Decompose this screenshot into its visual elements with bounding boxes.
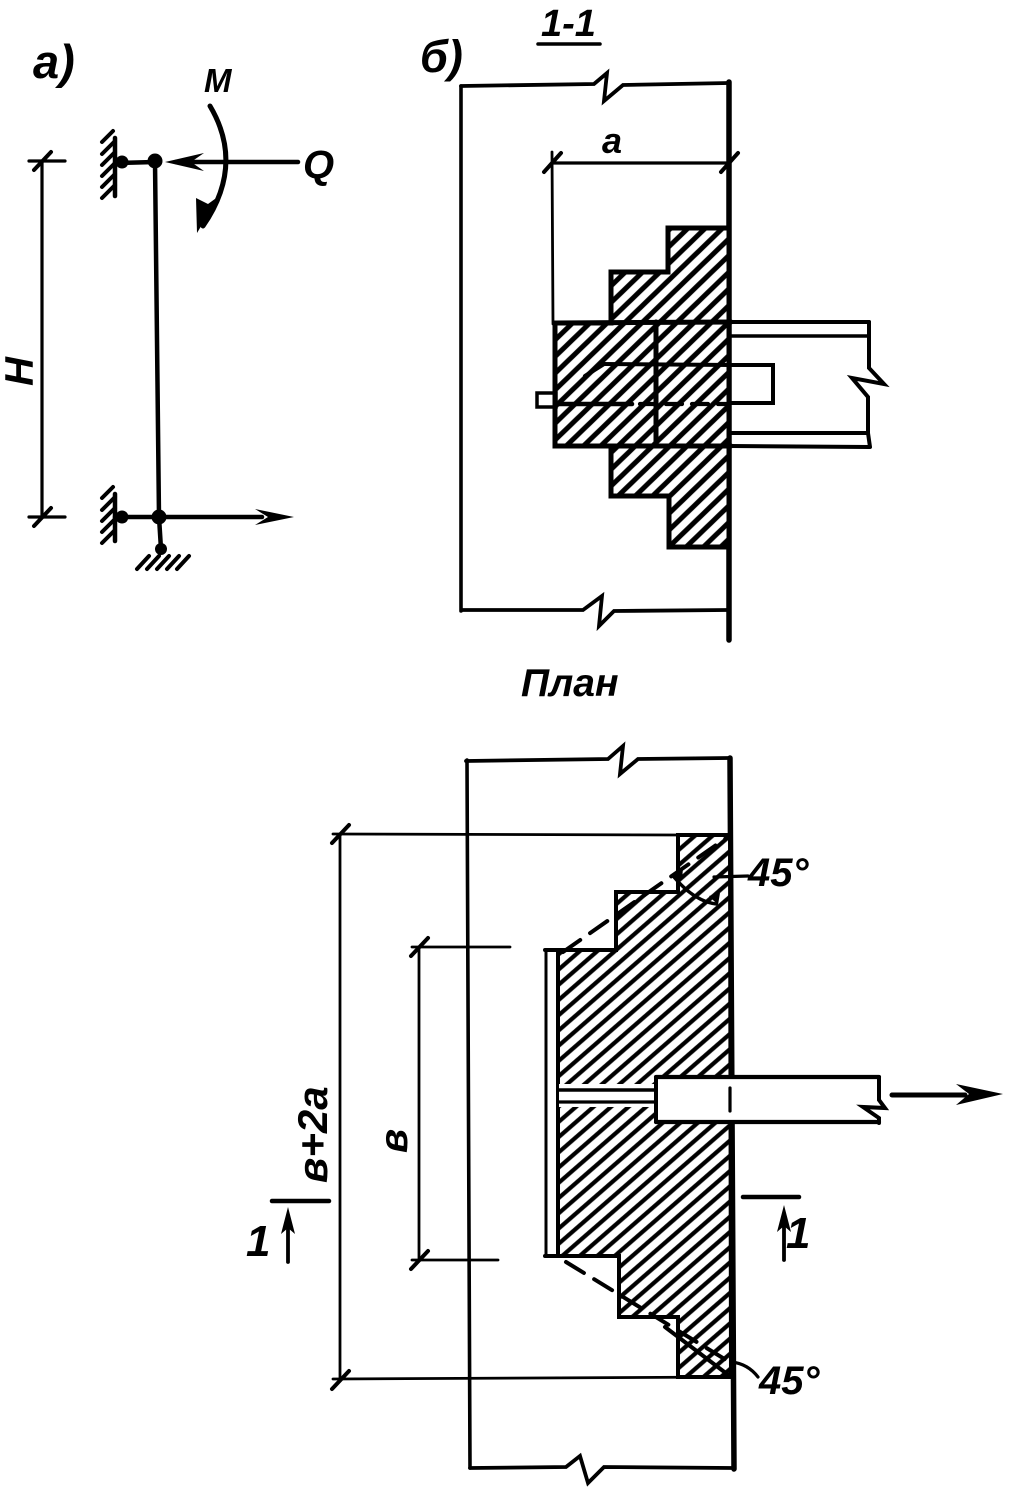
bottom reaction arrow [166, 515, 262, 520]
bolt shaft [556, 402, 632, 407]
dim b+2a line [339, 834, 342, 1380]
top support wall [113, 138, 118, 196]
moment arc M [203, 106, 226, 226]
dimension H top tick [34, 152, 51, 170]
svg-text:Н: Н [0, 356, 42, 386]
top support link [115, 162, 155, 163]
dimension H top stub [29, 159, 65, 162]
dim b+2a top extension [333, 834, 679, 835]
bolt shaft bottom line [558, 1100, 658, 1103]
wall face (right edge) [726, 82, 732, 640]
dimension H line [40, 161, 43, 517]
bolt shaft top line [558, 1088, 658, 1092]
wall face trace through beam [728, 1088, 731, 1111]
wall top edge with break [461, 73, 729, 101]
svg-text:1: 1 [786, 1209, 810, 1258]
dim b+2a bottom tick [332, 1371, 349, 1389]
dimension a extension line [552, 152, 553, 324]
block bottom line through [555, 444, 731, 449]
svg-text:План: План [521, 662, 619, 705]
45 deg leader top [714, 876, 748, 877]
svg-text:в+2а: в+2а [289, 1086, 336, 1183]
svg-text:М: М [204, 62, 233, 99]
dashed 45 line top [563, 836, 729, 952]
plate inner edge [556, 950, 560, 1256]
svg-text:а): а) [33, 35, 75, 88]
dimension H bottom stub [29, 515, 65, 518]
bolt head [537, 393, 556, 407]
plan wall top edge with break [466, 746, 729, 774]
beam break line [852, 322, 884, 447]
tab line chamfer [585, 364, 604, 376]
block top line through [555, 322, 731, 323]
bottom node dot [152, 510, 167, 525]
dim b top tick [411, 938, 428, 956]
section mark 1 right arrow [782, 1222, 786, 1260]
angle arc top [674, 877, 716, 904]
plate top step edge [545, 948, 616, 952]
dim b line [418, 947, 421, 1260]
section mark 1 right bar [743, 1195, 799, 1200]
dim b bottom tick [411, 1251, 428, 1269]
ground hatching [137, 556, 189, 569]
dim b+2a top tick [332, 825, 349, 843]
force Q arrow [176, 160, 298, 165]
tab top line into block [603, 364, 731, 365]
beam break line [863, 1077, 885, 1123]
svg-text:Q: Q [303, 143, 334, 187]
beam bottom flange line 2 [731, 446, 869, 447]
plan wall face (right edge) [730, 758, 734, 1469]
section mark 1 left arrow [286, 1224, 290, 1262]
svg-text:в: в [372, 1129, 416, 1153]
bolt axis dashed [640, 402, 727, 406]
plan wall bottom edge with break [470, 1456, 733, 1483]
title underline [538, 42, 600, 46]
svg-text:а: а [602, 120, 622, 161]
dashed 45 line bottom [566, 1262, 731, 1363]
anchor tab on face [731, 365, 773, 403]
top node dot [148, 154, 163, 169]
dim b+2a bottom extension [333, 1377, 731, 1379]
45 deg leader bottom [732, 1362, 758, 1377]
beam white fill [656, 1077, 879, 1122]
section mark 1 left bar [272, 1199, 329, 1204]
top support pin dot [116, 156, 129, 169]
moment arrowhead [196, 196, 219, 233]
arc arrowhead 2 [709, 893, 720, 905]
dimension a right tick [721, 153, 738, 172]
svg-text:б): б) [420, 31, 463, 82]
svg-text:1: 1 [246, 1217, 270, 1266]
bottom support wall [113, 494, 118, 541]
bottom support pin dot [116, 511, 129, 524]
embedded plate edge [654, 322, 659, 446]
svg-text:45°: 45° [758, 1359, 820, 1403]
pull arrow [892, 1093, 965, 1098]
svg-text:45°: 45° [747, 851, 809, 895]
plan stepped block (hatched) [558, 835, 731, 1377]
beam top flange line 2 [731, 334, 869, 338]
plate bottom step edge [545, 1254, 619, 1258]
column [155, 162, 161, 549]
beam bottom edge [656, 1120, 879, 1124]
dimension a line [552, 161, 729, 164]
plate outer edge [545, 950, 548, 1256]
dim b bottom extension [412, 1259, 498, 1262]
plan wall left edge [467, 760, 470, 1468]
svg-text:1-1: 1-1 [541, 3, 596, 45]
beam left end [654, 1077, 658, 1122]
bolt shaft white fill [559, 1084, 656, 1107]
arc arrowhead 1 [672, 868, 683, 880]
bottom support wall hatching [102, 487, 115, 543]
wall left edge [459, 86, 463, 611]
dimension H bottom tick [34, 508, 51, 526]
solid 45 line bottom [665, 1327, 731, 1377]
beam top edge [656, 1075, 879, 1079]
bottom support link [115, 515, 159, 520]
base pin dot [155, 543, 167, 555]
dim b top extension [412, 946, 510, 949]
top support wall hatching [102, 131, 115, 198]
beam top flange line 1 [731, 320, 869, 324]
beam bottom flange line 1 [731, 431, 867, 435]
wall bottom edge with break [462, 596, 727, 626]
dimension a left tick [544, 153, 561, 172]
stepped embedded block (hatched) [555, 228, 729, 547]
